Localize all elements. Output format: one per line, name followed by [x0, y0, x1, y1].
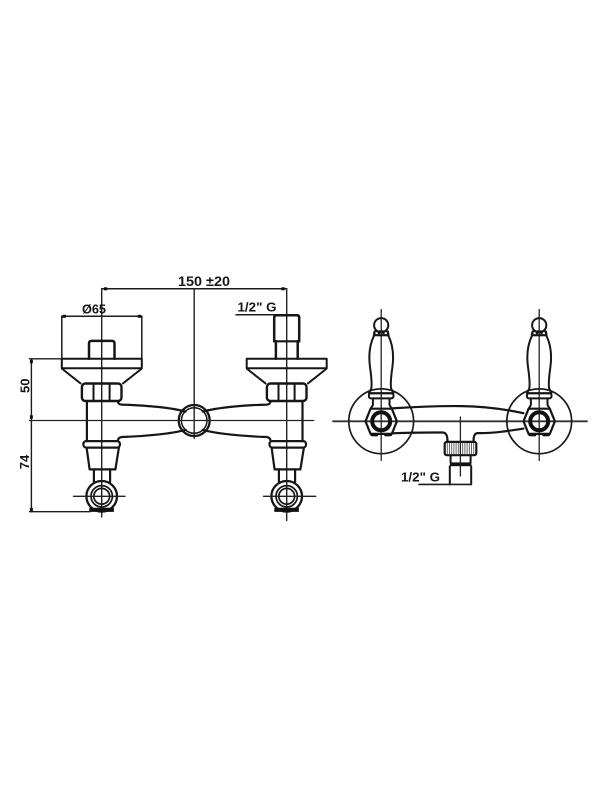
- outlet knurling texture: [447, 443, 473, 454]
- right handle stem: [529, 398, 550, 408]
- right handle lever body: [527, 335, 551, 393]
- O65 extension lines: [62, 316, 142, 359]
- cone left valve: [87, 448, 119, 470]
- leader line 1/2" G: [236, 314, 289, 316]
- right handle neck collar: [532, 331, 547, 335]
- collar left valve: [83, 441, 120, 448]
- outlet knurled ring: [445, 442, 477, 455]
- right handle ball: [532, 318, 546, 332]
- handle hub left: inner circle: [94, 488, 110, 504]
- centerline central spout: [193, 289, 195, 439]
- right stem ring: [530, 412, 548, 430]
- valve body neck left: [86, 401, 88, 441]
- handle hub left: middle circle: [91, 486, 112, 507]
- hex nut facets left: [94, 384, 110, 400]
- left hex shadow dashes: [372, 433, 391, 436]
- left handle collar beads: [373, 332, 389, 334]
- handle hub left: dark bottom wedge: [89, 508, 114, 512]
- left handle base collar: [369, 393, 394, 398]
- right hex nut (front): [524, 409, 555, 434]
- arm bottom edge right: [203, 430, 271, 441]
- right escutcheon circle: [507, 389, 572, 454]
- escutcheon cone right valve: [247, 369, 326, 384]
- cone right valve: [272, 448, 304, 470]
- svg-text:Ø65: Ø65: [82, 302, 106, 317]
- svg-text:50: 50: [17, 379, 32, 393]
- right handle base collar: [527, 393, 552, 398]
- handle hub right: dark bottom wedge: [274, 508, 299, 512]
- main horizontal centerline: [333, 420, 587, 422]
- body bottom edge left of outlet: [392, 432, 448, 441]
- right hex shadow dashes: [530, 433, 549, 436]
- leader line 1/2" G right view: [419, 483, 471, 485]
- body bottom edge right of outlet: [474, 429, 524, 442]
- wall stub right valve step: [274, 340, 299, 342]
- left handle stem: [371, 398, 392, 408]
- dimension 150 end dots: [104, 287, 107, 290]
- left escutcheon circle: [349, 389, 414, 454]
- left stem ring: [372, 412, 390, 430]
- wall stub right valve upper: [274, 315, 299, 341]
- hex nut right valve: [267, 384, 307, 402]
- dimension ticks 50/74: [30, 360, 33, 363]
- extension line handle bottom: [30, 511, 91, 513]
- dimension 150 line: [102, 288, 287, 290]
- arm top edge left: [118, 401, 186, 411]
- outlet dark band: [450, 462, 471, 466]
- svg-text:74: 74: [17, 454, 32, 469]
- central spout boss inner circle: [181, 408, 207, 434]
- handle hub right: middle circle: [276, 486, 297, 507]
- handle hub right crosshair: [264, 495, 316, 497]
- escutcheon right valve: [247, 359, 327, 369]
- svg-text:1/2" G: 1/2" G: [401, 470, 440, 485]
- outlet neck: [451, 455, 471, 462]
- arm top edge right: [203, 401, 271, 411]
- svg-text:1/2" G: 1/2" G: [238, 300, 277, 315]
- stem left valve: [94, 469, 110, 481]
- dimension 50/74 vertical line: [30, 359, 32, 512]
- hex nut left valve: [82, 384, 122, 402]
- centerline right valve: [286, 289, 288, 521]
- centerline left valve: [101, 289, 103, 517]
- wall stub left valve: [89, 341, 115, 359]
- right handle collar beads: [531, 332, 547, 334]
- extension line wall face: [30, 358, 62, 360]
- left handle neck collar: [374, 331, 389, 335]
- outlet centerline: [459, 417, 461, 476]
- valve body neck right: [301, 401, 303, 441]
- handle hub right: outer circle: [271, 481, 302, 512]
- stem right valve: [279, 469, 295, 481]
- left handle lever body: [369, 335, 393, 393]
- handle hub left crosshair: [74, 495, 126, 497]
- extension line axis (long horizontal): [30, 420, 314, 422]
- svg-text:150 ±20: 150 ±20: [178, 273, 230, 289]
- hex nut facets right: [279, 384, 295, 400]
- arm bottom edge left: [118, 430, 186, 441]
- right handle centerline: [538, 310, 540, 461]
- left hex nut (front): [366, 409, 397, 434]
- wall stub right valve lower: [276, 341, 298, 359]
- dimension O65 end dots: [63, 315, 66, 318]
- escutcheon cone left valve: [62, 369, 141, 384]
- handle hub right: inner circle: [279, 488, 295, 504]
- body top edge: [392, 406, 524, 413]
- outlet pipe 1/2G: [450, 466, 471, 484]
- escutcheon left valve: [62, 359, 142, 369]
- dimension O65 line: [62, 315, 142, 317]
- central spout boss outer circle: [179, 405, 210, 436]
- left handle ball: [374, 318, 388, 332]
- left handle centerline: [380, 310, 382, 461]
- handle hub left: outer circle: [86, 481, 117, 512]
- collar right valve: [270, 441, 307, 448]
